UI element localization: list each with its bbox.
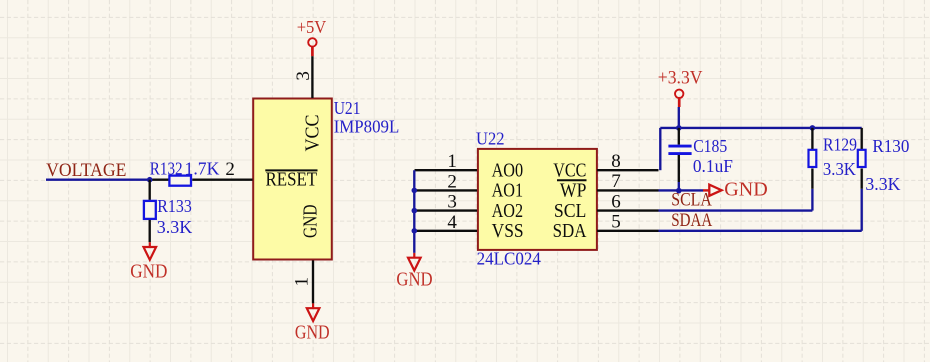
svg-text:WP: WP	[560, 180, 587, 202]
svg-text:6: 6	[611, 191, 621, 212]
svg-text:+3.3V: +3.3V	[658, 67, 703, 88]
svg-text:1.7K: 1.7K	[185, 158, 220, 178]
svg-text:VCC: VCC	[553, 160, 586, 182]
svg-text:3: 3	[293, 71, 314, 81]
svg-text:4: 4	[447, 212, 457, 233]
svg-text:24LC024: 24LC024	[477, 249, 541, 269]
svg-text:+5V: +5V	[297, 17, 327, 37]
svg-text:3.3K: 3.3K	[823, 159, 856, 179]
svg-text:1: 1	[292, 277, 313, 287]
svg-text:8: 8	[611, 151, 621, 172]
svg-text:AO2: AO2	[492, 200, 523, 222]
svg-text:VOLTAGE: VOLTAGE	[46, 160, 126, 181]
svg-text:R130: R130	[872, 136, 909, 156]
svg-text:VSS: VSS	[492, 220, 524, 242]
svg-text:3.3K: 3.3K	[865, 174, 900, 194]
svg-text:3.3K: 3.3K	[157, 217, 193, 237]
svg-text:R129: R129	[823, 135, 857, 155]
svg-text:GND: GND	[724, 179, 768, 200]
svg-text:SDA: SDA	[553, 220, 587, 242]
svg-text:2: 2	[447, 171, 457, 192]
svg-text:SCLA: SCLA	[671, 189, 712, 210]
svg-text:C185: C185	[693, 136, 727, 156]
svg-text:RESET: RESET	[266, 169, 318, 191]
svg-text:IMP809L: IMP809L	[334, 117, 400, 137]
svg-text:5: 5	[611, 212, 621, 233]
svg-text:SDAA: SDAA	[671, 210, 712, 231]
svg-text:2: 2	[225, 159, 235, 180]
svg-text:SCL: SCL	[554, 200, 587, 222]
svg-text:7: 7	[611, 171, 621, 192]
svg-text:R132: R132	[150, 158, 183, 178]
svg-text:1: 1	[447, 151, 457, 172]
svg-text:GND: GND	[396, 269, 432, 290]
svg-text:U22: U22	[476, 128, 505, 148]
svg-text:GND: GND	[299, 205, 321, 239]
svg-text:GND: GND	[295, 323, 330, 344]
svg-text:3: 3	[447, 192, 457, 213]
svg-text:U21: U21	[334, 98, 361, 118]
svg-text:AO1: AO1	[492, 180, 523, 202]
svg-text:GND: GND	[130, 261, 167, 282]
svg-text:R133: R133	[157, 196, 192, 216]
svg-text:0.1uF: 0.1uF	[693, 156, 733, 176]
svg-text:AO0: AO0	[492, 160, 523, 182]
svg-text:VCC: VCC	[301, 115, 323, 152]
